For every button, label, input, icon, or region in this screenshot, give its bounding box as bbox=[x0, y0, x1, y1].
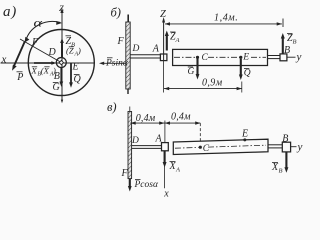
svg-text:0,4м: 0,4м bbox=[136, 113, 156, 124]
dimension 1.4m bbox=[165, 23, 282, 25]
force Q down arrow bbox=[70, 64, 72, 85]
shaft to bearing B bbox=[268, 55, 281, 57]
svg-text:x: x bbox=[163, 189, 169, 199]
force P line bbox=[13, 42, 24, 68]
svg-text:F: F bbox=[31, 37, 39, 48]
force Q arrow bbox=[240, 59, 242, 77]
rotor cylinder bbox=[173, 139, 268, 154]
svg-text:G: G bbox=[53, 82, 60, 93]
axis z bbox=[61, 10, 63, 101]
radius line D-F bbox=[20, 39, 61, 63]
svg-text:E: E bbox=[242, 53, 249, 63]
svg-text:): ) bbox=[77, 46, 81, 56]
svg-text:F: F bbox=[121, 168, 129, 179]
axis x bbox=[1, 62, 95, 64]
svg-text:B: B bbox=[279, 168, 283, 175]
svg-text:у: у bbox=[296, 51, 302, 63]
svg-text:Z: Z bbox=[59, 3, 64, 13]
svg-text:A: A bbox=[152, 44, 160, 55]
force Pcosa arrow bbox=[129, 179, 131, 188]
force G down arrow bbox=[60, 68, 62, 84]
svg-text:0,4м: 0,4м bbox=[171, 112, 191, 123]
svg-text:E: E bbox=[241, 129, 248, 140]
svg-text:а): а) bbox=[3, 4, 17, 20]
bearing A bbox=[162, 143, 169, 151]
shaft D-A bbox=[130, 54, 160, 56]
rotor centerline bbox=[175, 146, 199, 149]
svg-text:D: D bbox=[48, 47, 57, 58]
svg-text:B: B bbox=[282, 133, 288, 144]
node E dot on top edge bbox=[243, 138, 246, 141]
wheel centerline stub bbox=[129, 107, 131, 112]
svg-text:Z: Z bbox=[160, 9, 166, 20]
svg-text:Psinα: Psinα bbox=[105, 59, 129, 69]
svg-text:D: D bbox=[132, 44, 140, 54]
force XB arrow bbox=[285, 152, 287, 169]
svg-text:Q: Q bbox=[244, 69, 251, 79]
svg-text:C: C bbox=[202, 53, 209, 63]
force G arrow bbox=[196, 59, 198, 77]
rotor centerline bbox=[174, 56, 196, 58]
rotor cylinder bbox=[173, 49, 268, 65]
axis y bbox=[287, 56, 296, 58]
node C bbox=[196, 56, 199, 59]
force XB(XA) arrow bbox=[34, 62, 54, 64]
axis z bbox=[163, 19, 165, 61]
svg-text:1,4м.: 1,4м. bbox=[214, 13, 238, 24]
svg-text:Q: Q bbox=[74, 74, 82, 85]
bearing A bbox=[160, 54, 167, 61]
shaft D-A bbox=[132, 145, 162, 147]
extension line at A bbox=[164, 121, 166, 143]
dashed extension to C bbox=[199, 123, 201, 145]
force ZA arrow bbox=[166, 34, 168, 51]
svg-text:в): в) bbox=[107, 100, 117, 114]
svg-text:B: B bbox=[284, 45, 290, 56]
force ZB arrow bbox=[282, 37, 284, 54]
svg-text:0,9м: 0,9м bbox=[202, 78, 223, 89]
angle alpha arc bbox=[26, 21, 61, 40]
svg-text:B: B bbox=[54, 71, 60, 82]
bearing B bbox=[280, 54, 287, 61]
wheel disk edge (hatched bar) bbox=[126, 22, 130, 89]
hub small circle bbox=[56, 58, 66, 68]
node C bbox=[199, 146, 202, 149]
wheel rim circle bbox=[28, 30, 94, 96]
bearing B bbox=[282, 142, 290, 152]
svg-text:G: G bbox=[188, 67, 195, 77]
node E bbox=[239, 56, 242, 59]
dimension 0.4m second bbox=[165, 122, 201, 124]
svg-text:A: A bbox=[175, 167, 180, 174]
force ZB up arrow bbox=[61, 41, 63, 58]
dimension 0.4m first bbox=[130, 122, 164, 124]
svg-text:A: A bbox=[175, 37, 180, 44]
svg-text:у: у bbox=[297, 141, 303, 153]
svg-text:C: C bbox=[203, 144, 210, 154]
wheel disk edge (hatched bar) bbox=[128, 112, 132, 179]
dimension 0.9m bbox=[163, 61, 165, 93]
svg-text:B: B bbox=[293, 39, 297, 46]
svg-text:x: x bbox=[1, 54, 7, 66]
svg-text:α: α bbox=[34, 16, 43, 29]
axis y bbox=[291, 146, 297, 148]
svg-text:б): б) bbox=[111, 6, 121, 20]
axis x with force XA bbox=[164, 151, 166, 189]
svg-text:P: P bbox=[16, 72, 23, 83]
wheel centerline stubs bbox=[127, 15, 129, 23]
svg-text:D: D bbox=[131, 136, 139, 146]
svg-text:Pcosα: Pcosα bbox=[134, 180, 159, 190]
svg-text:E: E bbox=[72, 62, 79, 73]
force Psina arrow bbox=[101, 62, 126, 64]
shaft to bearing B bbox=[268, 144, 282, 146]
svg-text:F: F bbox=[117, 36, 125, 47]
